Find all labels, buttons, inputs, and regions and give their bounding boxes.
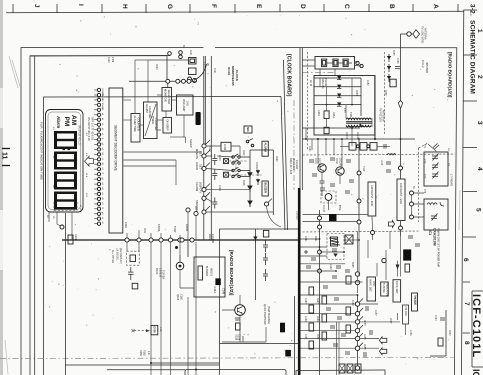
svg-text:R145: R145 [351, 262, 353, 268]
capacitor C111 [212, 169, 217, 180]
FM coil junction [382, 258, 386, 262]
svg-text:AM: AM [101, 98, 104, 101]
right open arrow 1 [379, 337, 386, 344]
svg-text:D111: D111 [208, 234, 211, 240]
bus junction J2 [137, 238, 141, 242]
bottom terminal box T1 [339, 364, 345, 373]
power rail top [30, 56, 196, 88]
switch box SW2 [224, 172, 229, 177]
svg-text:R147: R147 [316, 298, 318, 304]
tuner caps cluster [320, 181, 336, 190]
resistor R101 [68, 234, 77, 244]
diode D155 [387, 54, 391, 62]
Q104 label [263, 304, 271, 325]
right vertical from rect box [374, 76, 376, 140]
svg-text:C147: C147 [304, 298, 306, 304]
svg-text:t.1: t.1 [101, 108, 104, 111]
svg-text:MN6053EFN5: MN6053EFN5 [231, 66, 235, 86]
svg-text:R157: R157 [389, 318, 391, 324]
svg-text:R122: R122 [275, 156, 277, 162]
wire x=34.7 [34, 56, 36, 375]
svg-text:SELECTOR: SELECTOR [167, 90, 171, 104]
bus junction J5 [168, 238, 172, 242]
FM 10.7 black tag [403, 249, 411, 260]
svg-text:1SS133: 1SS133 [211, 234, 214, 244]
IF filter box CF103 [370, 143, 377, 151]
rail pin circles [166, 79, 170, 83]
svg-text:D151-154: D151-154 [321, 78, 324, 89]
svg-text:AC IN: AC IN [309, 80, 312, 86]
svg-text:C141: C141 [304, 236, 306, 242]
svg-text:455 BKB: 455 BKB [425, 62, 429, 73]
svg-text:[CLOCK BOARD]: [CLOCK BOARD] [286, 54, 292, 97]
thin rail beside thick bar [294, 296, 296, 375]
svg-text:BUZZER: BUZZER [205, 266, 208, 276]
scan scratches [5, 56, 460, 374]
FM line junctions [399, 166, 403, 170]
svg-text:MD101: MD101 [210, 268, 213, 277]
FM det boxed label [412, 293, 418, 311]
R158 C159 components [235, 318, 240, 330]
svg-text:R153: R153 [355, 90, 357, 96]
svg-text:D?50: D?50 [153, 327, 156, 334]
power rectifier box [314, 76, 375, 136]
svg-text:g3: g3 [101, 212, 103, 215]
inner border [30, 56, 170, 375]
svg-text:1SS133: 1SS133 [295, 160, 298, 170]
svg-text:+B: +B [281, 325, 285, 329]
svg-text:SEGMENT DECODER DRIVE: SEGMENT DECODER DRIVE [114, 125, 118, 172]
top ruler ticks [13, 4, 458, 13]
switch box SW1 [224, 159, 229, 164]
audio junction A5 [355, 336, 359, 340]
capacitor C130 [263, 240, 268, 252]
svg-text:G: G [166, 4, 173, 9]
svg-text:OFF 1-0.TT 42-6.23: OFF 1-0.TT 42-6.23 [91, 117, 95, 141]
resistor R152 [324, 127, 329, 133]
radio sub-board boundary bottom-left [220, 229, 299, 375]
ceramic filter dashed box [321, 191, 336, 203]
svg-text:ALARM TIME: ALARM TIME [133, 116, 137, 133]
svg-text:d3: d3 [101, 197, 103, 200]
svg-text:f1: f1 [101, 138, 103, 141]
svg-text:220R: 220R [241, 336, 244, 342]
capacitor C112 [212, 198, 217, 209]
svg-text:(SWITCHING): (SWITCHING) [267, 306, 271, 324]
svg-text:ICF-C101L: ICF-C101L [470, 294, 482, 358]
svg-text:C120: C120 [107, 57, 109, 63]
gutter dash-dot vertical [293, 100, 295, 190]
FM front end box [397, 179, 405, 221]
svg-text:X101: X101 [189, 50, 191, 56]
7-segment digit 2 [54, 152, 77, 170]
T101 arrow [359, 124, 363, 128]
svg-text:Q101: Q101 [314, 158, 316, 164]
junction at AM riser [371, 231, 375, 235]
bottom partial connector box [107, 370, 286, 375]
svg-text:ON OR:ST 40V 4.19: ON OR:ST 40V 4.19 [87, 117, 91, 141]
bus junction J8 [194, 211, 198, 215]
bus riser wires [127, 206, 196, 375]
top ruler grid letters J I H G F E D C B A [33, 4, 439, 9]
alarm mode tag box 2 [262, 181, 268, 196]
svg-text:b1: b1 [101, 118, 103, 121]
svg-text:7: 7 [463, 302, 470, 306]
IF chain circles [356, 145, 359, 148]
junction near display foot [60, 225, 64, 229]
segment decoder drive IC box [109, 88, 123, 233]
svg-text:f3: f3 [101, 207, 103, 210]
svg-text:L7 FRONT: L7 FRONT [450, 174, 453, 187]
diode D156 [387, 64, 391, 72]
svg-text:C148: C148 [222, 288, 225, 295]
left open arrow [388, 221, 394, 228]
svg-text:C151: C151 [304, 334, 306, 340]
svg-text:FM IF, DET: FM IF, DET [395, 281, 398, 294]
trimmer CT101 wire arc [194, 64, 207, 80]
contact pair group [232, 154, 240, 178]
switch junction S106 [202, 206, 210, 214]
audio bus vertical [357, 295, 359, 371]
svg-text:F: F [210, 4, 217, 8]
gang junction circles [410, 191, 414, 219]
alarm time counter box [131, 114, 140, 143]
svg-text:C1: C1 [447, 148, 449, 152]
rectifier wires [314, 78, 361, 116]
FM feeder antenna label [379, 108, 385, 122]
AM IF DET OSC box [367, 277, 376, 301]
bus junction J6 [178, 238, 182, 242]
bottom terminal box T3 [355, 364, 361, 373]
svg-text:CLOCK: CLOCK [235, 70, 239, 82]
svg-text:I: I [77, 4, 84, 6]
clock bus vertical 211 [210, 56, 212, 240]
AM black tag [329, 214, 337, 221]
svg-text:6: 6 [462, 258, 469, 262]
scan speckles [45, 15, 449, 364]
svg-text:4: 4 [476, 167, 483, 171]
capacitor C101 [128, 267, 134, 280]
7-segment digit 3 [54, 172, 77, 190]
diode D153 [337, 94, 341, 98]
svg-text:COUNTER: COUNTER [148, 106, 151, 119]
svg-text:C152: C152 [366, 80, 368, 86]
clock IC black tag [196, 112, 201, 125]
svg-text:C: C [343, 4, 350, 9]
svg-text:1N4002: 1N4002 [324, 78, 327, 87]
bottom right labels [434, 315, 450, 336]
IF filter box CF101 [349, 143, 356, 151]
bottom terminal box T2 [347, 364, 353, 373]
IF filter box CF102 [360, 143, 367, 151]
svg-text:[RADIO BOARD(1/2)]: [RADIO BOARD(1/2)] [229, 250, 234, 296]
FM lead wire antenna label [421, 26, 427, 44]
svg-text:e1: e1 [101, 133, 103, 136]
svg-text:12: 12 [52, 156, 54, 159]
diode D110 [253, 236, 257, 243]
D101 label [155, 268, 166, 279]
buzzer module box [194, 257, 225, 297]
rectifier inner verticals [320, 78, 372, 127]
svg-text:PM: PM [63, 117, 70, 127]
svg-text:FM FRONT - END: FM FRONT - END [399, 183, 403, 204]
resistor box 105B [221, 142, 231, 151]
digit 4 dashed mark [54, 202, 77, 211]
bottom junction dots [150, 362, 152, 364]
svg-text:COUNTER: COUNTER [154, 118, 157, 131]
svg-text:C124: C124 [218, 185, 220, 191]
am input rails [303, 215, 369, 222]
tuner coil L102 [387, 154, 396, 156]
uk model note [111, 248, 122, 264]
display pin annotation text [87, 117, 95, 141]
svg-text:14: 14 [52, 185, 54, 188]
page number mark 11 [1, 149, 11, 166]
osc amp box [177, 95, 194, 115]
svg-text:13 2: 13 2 [85, 193, 87, 198]
svg-text:CT4: CT4 [423, 189, 425, 194]
section dashed divider [303, 154, 456, 155]
IF dashed module box [327, 234, 344, 260]
svg-text:D104-106: D104-106 [255, 162, 257, 173]
svg-text:C160: C160 [179, 294, 182, 301]
svg-text:DIVIDER: DIVIDER [166, 120, 170, 131]
svg-text:6.5V: 6.5V [343, 108, 345, 113]
bus junction J4 [159, 238, 163, 242]
outer page border [21, 48, 457, 375]
svg-text:10SB: 10SB [124, 222, 127, 228]
FM OSC box [403, 305, 409, 324]
svg-text:ON OR.ST 4D-L.D: ON OR.ST 4D-L.D [77, 125, 80, 145]
svg-text:UK MODEL: UK MODEL [116, 248, 119, 261]
svg-text:FLUORESCENT INDICATION TUBE: FLUORESCENT INDICATION TUBE [40, 131, 44, 180]
FM antenna down wire [400, 34, 402, 101]
svg-text:FM LEAD WIRE: FM LEAD WIRE [421, 26, 424, 44]
svg-text:C122: C122 [208, 146, 210, 152]
svg-text:COUNTER: COUNTER [136, 118, 140, 131]
fluorescent display tube outline [46, 110, 84, 213]
wire to border curve [267, 206, 282, 227]
svg-text:CT?: CT? [203, 62, 207, 68]
audio caps cluster [304, 250, 350, 354]
right ruler numbers 1-8 [462, 29, 483, 345]
svg-text:SLEEP: SLEEP [189, 139, 193, 148]
svg-text:a3: a3 [101, 182, 103, 185]
svg-text:B: B [388, 4, 395, 9]
svg-text:BUZZER: BUZZER [264, 183, 268, 194]
svg-text:SNOOZE: SNOOZE [195, 200, 199, 212]
audio junction A1 [355, 302, 359, 306]
svg-text:R120: R120 [155, 64, 157, 70]
tuner tiny labels [308, 132, 449, 213]
svg-text:C143: C143 [329, 264, 331, 270]
switch junction S104 [202, 184, 210, 192]
svg-text:10SB: 10SB [223, 144, 226, 150]
svg-text:TUNING: TUNING [382, 283, 385, 293]
svg-text:FM 305B: FM 305B [414, 295, 417, 305]
svg-text:(AM DISPLAY): (AM DISPLAY) [119, 248, 122, 264]
diode list label [289, 158, 298, 175]
svg-text:AM: AM [70, 115, 77, 125]
D111 label [208, 234, 214, 244]
diode D108 [256, 179, 260, 186]
pin name ticks [101, 88, 104, 224]
svg-text:FM IF: FM IF [406, 251, 410, 259]
diode D107 [256, 170, 260, 177]
svg-text:C149: C149 [304, 316, 306, 322]
sub-board vertical wire [254, 229, 256, 300]
top ruler line [6, 11, 464, 13]
wire bus to buzzer [180, 240, 194, 288]
svg-text:T101: T101 [349, 112, 352, 118]
svg-text:AM IF, DET: AM IF, DET [369, 279, 372, 292]
svg-text:FLIP.: FLIP. [40, 122, 44, 129]
digit pin numbers [52, 127, 87, 211]
audio junction A6 [355, 346, 359, 350]
resistor R120 [346, 276, 351, 284]
audio junction levers [359, 299, 363, 347]
svg-text:C159: C159 [238, 334, 241, 340]
bottom right corner parts [430, 310, 446, 356]
svg-text:8: 8 [463, 341, 470, 345]
resistor box R156 [390, 79, 396, 87]
bus junction J6c [190, 238, 194, 242]
contact pair upper [246, 139, 254, 147]
tuning gang dashed outline [419, 143, 429, 222]
capacitor C131 [263, 253, 268, 265]
svg-text:d1: d1 [101, 128, 103, 131]
svg-text:D1: D1 [412, 186, 414, 190]
RIP black tag [285, 350, 291, 357]
switch junction S103 [202, 163, 210, 171]
svg-text:34: 34 [46, 215, 48, 218]
svg-text:/PM: /PM [101, 93, 103, 97]
svg-text:Q103: Q103 [176, 294, 179, 301]
R159 labels [139, 350, 150, 356]
det components [405, 236, 420, 272]
svg-text:C153: C153 [351, 300, 353, 306]
svg-text:R149: R149 [316, 316, 318, 322]
jumper dashed box [127, 251, 140, 265]
jumper dashed arrow [132, 329, 150, 332]
FM antenna terminal [401, 30, 420, 38]
switch junction S102 [202, 150, 210, 158]
right ruler line [462, 10, 464, 375]
svg-text:1: 1 [476, 29, 483, 33]
transistor Q101 [318, 164, 326, 172]
svg-text:3: 3 [476, 121, 483, 125]
right open arrow 2 [379, 348, 386, 355]
audio junction A2 [355, 312, 359, 316]
svg-text:C156: C156 [396, 58, 398, 64]
svg-text:OSC AMP: OSC AMP [182, 99, 186, 111]
AM tuning pack box [424, 199, 448, 230]
svg-text:t1: t1 [101, 217, 104, 220]
left riser wire [319, 210, 321, 375]
riser junctions [318, 216, 322, 220]
dashed divider [303, 231, 421, 232]
svg-text:D155: D155 [392, 50, 394, 56]
svg-text:20: 20 [206, 63, 210, 67]
svg-text:5: 5 [475, 208, 482, 212]
tuner supply drop wires [306, 128, 352, 210]
radio board inner dashed vertical [307, 52, 309, 150]
IF chain caps [384, 144, 386, 149]
hollow arrow to display [85, 156, 94, 166]
capacitor C110 [212, 154, 217, 165]
svg-text:OSC: OSC [372, 281, 375, 287]
svg-text:CT1: CT1 [423, 144, 425, 149]
svg-text:G16-1: G16-1 [213, 287, 216, 295]
svg-text:R153: R153 [363, 320, 365, 326]
svg-text:CT3: CT3 [423, 174, 425, 179]
entry cap [433, 144, 439, 150]
svg-text:CF101: CF101 [345, 132, 347, 140]
FM osc drop wire [398, 236, 406, 335]
svg-text:ANTENNA: ANTENNA [382, 110, 385, 122]
svg-text:C4 L2: C4 L2 [421, 60, 425, 68]
dashed vertical right of box [383, 52, 385, 135]
diode D105 [248, 186, 252, 192]
bottom solid line clock [65, 364, 219, 366]
audio tiny labels [304, 236, 415, 350]
supply wires [302, 128, 415, 139]
switch junction S107 [264, 199, 272, 207]
antenna wire continue [400, 109, 402, 179]
svg-text:100SB: 100SB [185, 224, 188, 232]
svg-text:9 6: 9 6 [85, 153, 87, 157]
svg-text:2: 2 [476, 75, 483, 79]
svg-text:S103: S103 [242, 150, 244, 156]
snooze tag box [244, 126, 252, 133]
bus junction J6b [180, 238, 184, 242]
svg-text:C155: C155 [363, 334, 365, 340]
box to bus wires [124, 130, 203, 185]
svg-text:b3: b3 [101, 187, 103, 190]
svg-text:8 7: 8 7 [85, 133, 87, 137]
AM front end output wire [371, 216, 374, 240]
svg-text:ALARM: ALARM [145, 104, 148, 113]
clock bus vertical 204 [204, 56, 206, 240]
audio junction A4 [355, 328, 359, 332]
svg-text:E: E [255, 4, 262, 9]
audio junction A3 [355, 320, 359, 324]
MD101 dot [175, 246, 178, 249]
extra audio junctions [355, 272, 359, 276]
bottom line radio sub [220, 343, 299, 345]
fold dash-dot line bottom [0, 358, 455, 359]
svg-text:R162: R162 [142, 350, 145, 356]
display ground wire [65, 213, 67, 375]
IF chain wires [340, 145, 390, 147]
svg-text:IC: IC [471, 369, 481, 375]
audio stage dots [319, 238, 360, 296]
svg-text:g2: g2 [101, 177, 103, 180]
diode D157 [387, 74, 391, 82]
7-segment digit 4 [54, 192, 77, 210]
svg-text:C159: C159 [409, 330, 411, 336]
clock top tiny labels [107, 45, 215, 74]
tuner vertical wire [358, 139, 360, 232]
label FLUORESCENT INDICATION TUBE [40, 122, 44, 180]
wire right riser [240, 150, 273, 215]
svg-text:C121: C121 [308, 146, 310, 152]
switch wires to boxes [206, 146, 273, 212]
svg-text:R151: R151 [332, 112, 335, 118]
svg-text:CT2: CT2 [423, 159, 425, 164]
clock mid tiny labels [208, 146, 277, 191]
audio stage extra horizontals [301, 231, 398, 282]
